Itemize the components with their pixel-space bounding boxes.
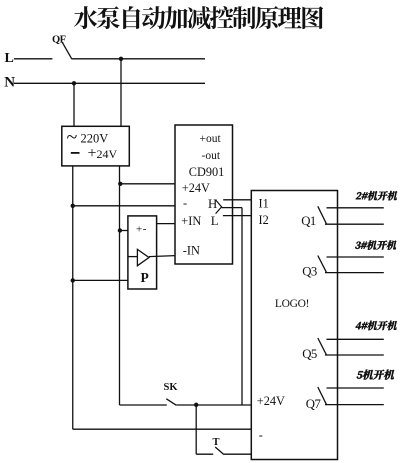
- contact Q1 blade: [318, 206, 327, 224]
- contact Q3 blade: [318, 256, 327, 273]
- wire L right segment: [72, 58, 206, 60]
- contact Q7 lower terminal: [325, 404, 384, 406]
- wire SK node drop: [195, 405, 197, 454]
- junction N to transformer: [72, 81, 76, 85]
- svg-text:SK: SK: [164, 382, 179, 393]
- wire P to CD901 +IN: [157, 223, 175, 225]
- wire SK to LOGO +24V pin: [176, 404, 251, 406]
- contact Q5 blade: [318, 338, 327, 355]
- title 水泵自动加减控制原理图: [74, 6, 323, 29]
- wire DC- to P sensor: [73, 279, 128, 281]
- contact Q7 blade: [318, 387, 327, 404]
- svg-text:Q5: Q5: [302, 347, 317, 361]
- controller CD901: [175, 125, 233, 264]
- junction DC- to P sensor: [71, 278, 75, 282]
- svg-text:-IN: -IN: [183, 243, 200, 257]
- contact Q1 upper terminal: [327, 207, 384, 209]
- junction DC- to CD901: [71, 204, 75, 208]
- junction SK node: [194, 403, 198, 407]
- wire DC- to CD901 - pin: [73, 205, 175, 207]
- wire N: [14, 82, 205, 84]
- svg-text:I1: I1: [259, 197, 269, 211]
- switch T blade: [215, 447, 224, 454]
- svg-text:LOGO!: LOGO!: [275, 298, 309, 310]
- wire wedge common vertical: [241, 208, 243, 405]
- wire DC- to LOGO - pin: [73, 428, 252, 430]
- PLC LOGO!: [251, 191, 337, 460]
- wire DC- rail vertical: [72, 166, 74, 429]
- contact Q5 lower terminal: [325, 354, 384, 356]
- svg-text:T: T: [213, 437, 220, 448]
- junction DC+ to CD901: [118, 182, 122, 186]
- svg-text:-: -: [259, 428, 263, 442]
- junction DC+ to P sensor: [118, 228, 122, 232]
- contact Q5 upper terminal: [327, 338, 384, 340]
- wire P output to CD901 -IN: [149, 256, 175, 257]
- wire L to I2: [223, 215, 251, 217]
- label 2#机开机: [356, 191, 399, 200]
- svg-text:-: -: [143, 223, 147, 235]
- switch SK blade: [166, 399, 176, 405]
- wire N drop to transformer: [73, 83, 75, 126]
- svg-text:CD901: CD901: [189, 165, 225, 179]
- junction L to transformer: [119, 57, 123, 61]
- svg-text:Q7: Q7: [306, 397, 322, 411]
- wire DC+ to CD901 +24V pin: [120, 183, 176, 185]
- pressure sensor P: [128, 216, 157, 289]
- svg-text:+24V: +24V: [182, 181, 210, 195]
- breaker QF blade: [62, 42, 71, 59]
- svg-text:P: P: [141, 270, 149, 285]
- svg-text:Q3: Q3: [302, 264, 317, 278]
- wire H to I1: [223, 199, 251, 201]
- wire L left segment: [14, 58, 52, 60]
- svg-text:H: H: [208, 197, 217, 211]
- wire to T switch: [196, 453, 213, 455]
- svg-text:+out: +out: [200, 133, 222, 145]
- wire DC+ to P sensor: [120, 230, 128, 232]
- label 4#机开机: [355, 321, 398, 330]
- contact Q1 lower terminal: [325, 223, 384, 225]
- svg-text:~: ~: [67, 127, 78, 149]
- label 3#机开机: [355, 240, 398, 249]
- contact Q7 upper terminal: [327, 387, 384, 389]
- svg-text:-: -: [183, 196, 187, 210]
- contact Q3 upper terminal: [327, 256, 384, 258]
- label 5机开机: [356, 370, 395, 380]
- svg-text:I2: I2: [259, 213, 269, 227]
- svg-text:24V: 24V: [97, 147, 118, 161]
- svg-text:L: L: [5, 51, 14, 66]
- contact Q3 lower terminal: [325, 272, 384, 274]
- svg-text:220V: 220V: [81, 132, 109, 146]
- minus symbol (DC): [71, 152, 80, 154]
- wire wedge common horizontal: [222, 207, 242, 209]
- svg-text:L: L: [211, 214, 219, 228]
- wire L drop to transformer: [120, 59, 122, 127]
- wire T to LOGO: [224, 453, 252, 455]
- wire DC+ rail vertical: [119, 166, 121, 405]
- power supply 220V/24V: [62, 126, 130, 166]
- wire DC+ to SK: [120, 404, 167, 406]
- svg-text:+24V: +24V: [257, 394, 285, 408]
- svg-text:Q1: Q1: [301, 214, 316, 228]
- amplifier triangle in P: [137, 249, 149, 265]
- wire P internal input: [128, 256, 137, 258]
- svg-text:+IN: +IN: [181, 214, 201, 228]
- svg-text:N: N: [4, 75, 15, 91]
- svg-text:+: +: [136, 224, 142, 236]
- svg-text:-out: -out: [202, 150, 221, 162]
- svg-text:+: +: [88, 145, 97, 162]
- comparator wedge H/L: [216, 200, 222, 214]
